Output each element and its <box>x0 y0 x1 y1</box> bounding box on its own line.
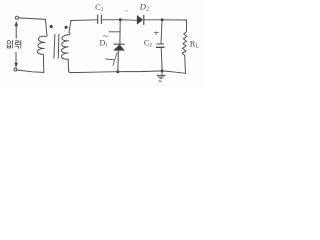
wire C1 to node <box>102 19 121 21</box>
arrow down (input bottom lead) <box>15 52 17 63</box>
wire D2 to right <box>144 19 187 21</box>
polarity dot (primary) <box>50 25 53 28</box>
node junction (C2 top) <box>161 18 164 21</box>
glyph 력 <box>16 41 19 45</box>
annotation tilde <box>103 35 108 38</box>
node junction (ground) <box>161 69 164 72</box>
resistor RL <box>182 20 187 73</box>
glyph 입 <box>7 41 10 44</box>
wire top-left <box>19 18 46 20</box>
terminal (input top) <box>15 16 18 19</box>
stray dash crossing D1 lead <box>106 58 114 61</box>
text 입력 (input) drawn as strokes <box>7 40 21 48</box>
diode D1 (vertical) <box>119 21 121 44</box>
transformer T1 primary winding <box>37 19 47 72</box>
transformer T1 secondary winding <box>61 21 70 73</box>
transformer core line 2 <box>57 34 60 58</box>
plus mark above C2 <box>154 32 158 35</box>
transformer core line 1 <box>54 34 55 58</box>
node junction (C1/D1/D2) <box>119 18 122 21</box>
capacitor C1 <box>97 15 99 23</box>
wire bottom (secondary net) <box>70 71 185 73</box>
stray dash left of D2 label <box>125 10 127 12</box>
polarity dot (secondary) <box>65 26 68 29</box>
wire node to D2 <box>120 19 137 22</box>
wire secondary top <box>71 20 98 21</box>
wire bottom-left <box>17 70 44 72</box>
stray slash on D1 lower lead <box>113 52 117 65</box>
faint speck below ground <box>159 80 161 82</box>
annotation stub line at node <box>109 31 120 33</box>
ground <box>161 71 163 75</box>
terminal (input bottom) <box>14 68 17 71</box>
node junction (D1 bottom) <box>116 70 119 73</box>
arrow up (input top lead) <box>15 25 17 38</box>
capacitor C2 <box>161 21 162 44</box>
diode D2 <box>137 16 142 24</box>
